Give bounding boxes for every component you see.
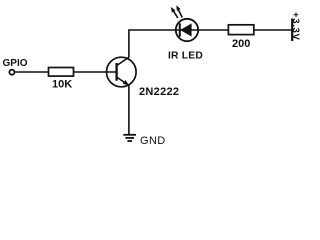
svg-text:IR LED: IR LED <box>168 51 203 62</box>
svg-text:+3.3V: +3.3V <box>290 12 300 41</box>
svg-text:200: 200 <box>232 38 250 50</box>
svg-text:2N2222: 2N2222 <box>139 86 179 98</box>
svg-text:10K: 10K <box>52 79 72 91</box>
svg-text:GPIO: GPIO <box>3 58 28 69</box>
svg-text:GND: GND <box>140 135 166 147</box>
